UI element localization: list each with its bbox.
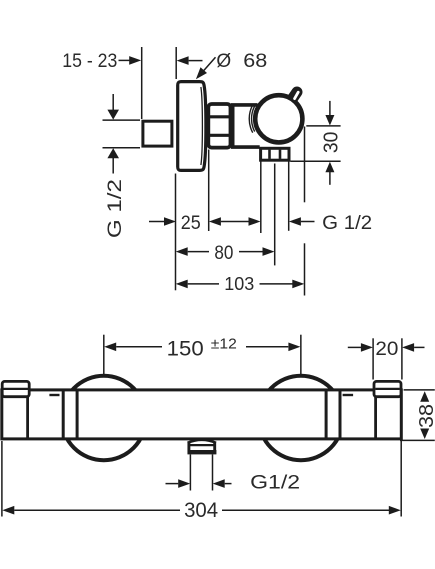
svg-text:G1/2: G1/2 [250, 473, 300, 494]
svg-text:Ø: Ø [216, 51, 231, 72]
svg-text:20: 20 [375, 339, 398, 360]
svg-text:25: 25 [181, 212, 201, 234]
svg-text:103: 103 [224, 274, 254, 294]
svg-text:68: 68 [243, 51, 267, 72]
svg-text:G 1/2: G 1/2 [322, 213, 372, 234]
svg-text:15 - 23: 15 - 23 [62, 50, 117, 72]
svg-text:80: 80 [214, 243, 233, 264]
svg-text:38: 38 [416, 404, 435, 428]
svg-text:30: 30 [320, 132, 342, 154]
svg-text:G 1/2: G 1/2 [104, 179, 126, 238]
svg-text:304: 304 [184, 499, 218, 522]
svg-text:±12: ±12 [211, 337, 237, 353]
svg-text:150: 150 [167, 336, 204, 360]
